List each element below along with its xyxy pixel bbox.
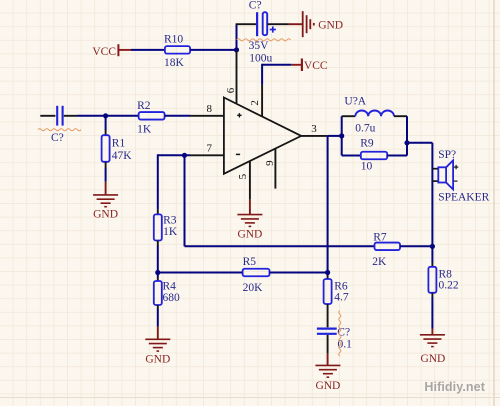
svg-text:SPEAKER: SPEAKER bbox=[438, 192, 489, 204]
power port VCC (left) bbox=[92, 44, 131, 58]
resistor R1 bbox=[102, 135, 110, 162]
svg-text:680: 680 bbox=[163, 292, 181, 304]
wire node C down to feedback rail bbox=[184, 155, 186, 246]
node B junction dot bbox=[234, 47, 239, 52]
wire R1 to ground bbox=[105, 162, 107, 195]
node D junction dot (output) bbox=[339, 133, 344, 138]
svg-text:18K: 18K bbox=[164, 57, 185, 69]
svg-text:2K: 2K bbox=[372, 256, 387, 268]
ground GND2 (top right, rotated) bbox=[303, 11, 314, 37]
sheet border right bbox=[493, 0, 495, 406]
wire R8 to ground bbox=[431, 293, 433, 335]
resistor R4 bbox=[154, 281, 162, 305]
sheet border bottom bbox=[0, 397, 500, 399]
ground GND6 (under R8) bbox=[420, 335, 445, 347]
ground GND3 lead (under op-amp) bbox=[249, 200, 251, 214]
wire left rail to coil bbox=[342, 115, 356, 117]
wire node B up to C? top bbox=[236, 24, 238, 50]
wire C3 to ground bbox=[327, 335, 329, 354]
speaker body bbox=[438, 167, 446, 182]
node G junction dot bbox=[430, 244, 435, 249]
speaker pin leads bbox=[432, 168, 438, 170]
wire node G to R8 bbox=[431, 246, 433, 262]
pin 3 output lead bbox=[301, 135, 327, 137]
wire R7 to node G bbox=[400, 245, 432, 247]
svg-text:GND: GND bbox=[420, 353, 445, 365]
ground GND3 bbox=[237, 215, 262, 227]
node C junction dot (pin7 tee) bbox=[182, 153, 187, 158]
svg-text:GND: GND bbox=[93, 209, 118, 221]
wire output to node D bbox=[328, 135, 342, 137]
speaker SP? bbox=[432, 160, 458, 189]
svg-text:0.22: 0.22 bbox=[439, 279, 459, 291]
svg-text:VCC: VCC bbox=[304, 60, 328, 72]
svg-text:0.7u: 0.7u bbox=[355, 123, 375, 135]
wire corner to C? left plate bbox=[236, 23, 256, 25]
svg-text:R2: R2 bbox=[137, 100, 151, 112]
wire R3 to node E bbox=[157, 241, 159, 246]
svg-text:R1: R1 bbox=[112, 137, 126, 149]
wire node E down to R4 bbox=[157, 273, 159, 278]
op-amp minus mark bbox=[236, 153, 240, 155]
capacitor C3 (0.1 Zobel) bbox=[317, 329, 337, 334]
wire node D up-down left rail bbox=[341, 116, 343, 155]
svg-text:5: 5 bbox=[237, 173, 249, 179]
svg-text:6: 6 bbox=[225, 87, 237, 93]
node H junction dot (right rail) bbox=[404, 140, 409, 145]
svg-text:GND: GND bbox=[145, 353, 170, 365]
op-amp U1 triangle bbox=[224, 98, 301, 174]
node E junction dot bbox=[155, 270, 160, 275]
svg-text:R5: R5 bbox=[243, 256, 257, 268]
svg-text:7: 7 bbox=[207, 143, 213, 155]
svg-text:U?A: U?A bbox=[344, 96, 366, 108]
svg-text:GND: GND bbox=[237, 228, 262, 240]
wire R6 to C? bottom bbox=[327, 304, 329, 327]
wire C? to GND2 bbox=[267, 23, 289, 25]
resistor R8 bbox=[428, 267, 436, 293]
speaker minus mark bbox=[454, 180, 458, 182]
pin 2 lead bbox=[261, 85, 263, 117]
svg-text:Hifidiy.net: Hifidiy.net bbox=[424, 380, 485, 394]
resistor R9 bbox=[361, 152, 387, 160]
squiggle beside C3 (vertical) bbox=[339, 311, 341, 357]
squiggle under input C? bbox=[38, 129, 81, 131]
op-amp plus mark bbox=[237, 113, 241, 117]
svg-text:8: 8 bbox=[207, 103, 213, 115]
squiggle under 35V bbox=[237, 39, 291, 41]
wire VCC right to pin 2 bbox=[262, 64, 291, 66]
node F junction dot bbox=[325, 270, 330, 275]
power port VCC (right) bbox=[291, 59, 328, 72]
ground GND5 (under C3) bbox=[315, 365, 340, 377]
svg-text:GND: GND bbox=[318, 20, 343, 32]
ground GND4 (under R4) bbox=[145, 339, 170, 351]
resistor R7 bbox=[375, 243, 401, 251]
wire output down to Zobel node bbox=[327, 136, 329, 273]
wire node F to R6 bbox=[327, 273, 329, 276]
node A junction dot bbox=[103, 113, 108, 118]
wire R9 to right rail bbox=[387, 155, 407, 157]
svg-text:R10: R10 bbox=[164, 34, 183, 46]
wire input stub to C? bbox=[40, 115, 55, 117]
wire R5 to node F bbox=[270, 272, 328, 274]
speaker plus mark bbox=[454, 165, 458, 169]
svg-text:SP?: SP? bbox=[438, 149, 456, 161]
wire bottom rail left bbox=[342, 155, 361, 157]
wire R10 to node B bbox=[190, 49, 236, 51]
svg-text:GND: GND bbox=[315, 380, 340, 392]
svg-text:2: 2 bbox=[249, 100, 261, 106]
wire R2 to pin 8 bbox=[165, 115, 190, 117]
svg-text:R4: R4 bbox=[163, 281, 177, 293]
svg-text:C?: C? bbox=[249, 0, 262, 11]
svg-text:100u: 100u bbox=[249, 52, 272, 64]
capacitor C1 (input C?) bbox=[57, 106, 77, 126]
resistor R3 bbox=[154, 214, 162, 240]
wire R4 to ground bbox=[157, 305, 159, 339]
svg-text:20K: 20K bbox=[243, 282, 264, 294]
pin 9 lead (unconnected) bbox=[274, 149, 276, 189]
svg-text:3: 3 bbox=[311, 123, 317, 135]
pin 7 wire bbox=[158, 154, 190, 156]
svg-text:35V: 35V bbox=[249, 40, 270, 52]
pin 5 lead bbox=[249, 161, 251, 200]
svg-text:10: 10 bbox=[361, 161, 373, 173]
resistor R2 bbox=[139, 112, 165, 120]
resistor R5 bbox=[243, 269, 270, 277]
wire speaker branch vertical bbox=[431, 143, 433, 247]
svg-text:47K: 47K bbox=[112, 150, 133, 162]
wire VCC to R10 bbox=[131, 49, 165, 51]
wire right rail bbox=[406, 116, 408, 155]
capacitor C2 (35V 100u electrolytic) bbox=[257, 12, 276, 36]
pin 6 lead bbox=[236, 50, 238, 103]
wire coil to right rail bbox=[394, 115, 407, 117]
wire node C branch down to R3 bbox=[157, 154, 159, 209]
svg-text:C?: C? bbox=[51, 132, 64, 144]
wire node E to R5 bbox=[158, 272, 243, 274]
svg-text:R3: R3 bbox=[163, 214, 177, 226]
svg-text:1K: 1K bbox=[163, 226, 178, 238]
wire feedback rail to R7 bbox=[185, 245, 375, 247]
svg-text:4.7: 4.7 bbox=[334, 291, 349, 303]
resistor R6 bbox=[324, 279, 332, 304]
inductor L1 coil bbox=[355, 111, 394, 117]
wire node A down to R1 bbox=[105, 116, 107, 130]
svg-text:1K: 1K bbox=[137, 123, 152, 135]
resistor R10 bbox=[165, 46, 190, 54]
ground GND1 (under R1) bbox=[93, 195, 118, 207]
wire C? to R2 with node A bbox=[77, 115, 139, 117]
svg-text:R7: R7 bbox=[373, 232, 387, 244]
svg-text:9: 9 bbox=[264, 160, 276, 166]
svg-text:R9: R9 bbox=[360, 138, 374, 150]
svg-text:VCC: VCC bbox=[92, 46, 116, 58]
wire node H to speaker branch bbox=[407, 142, 432, 144]
